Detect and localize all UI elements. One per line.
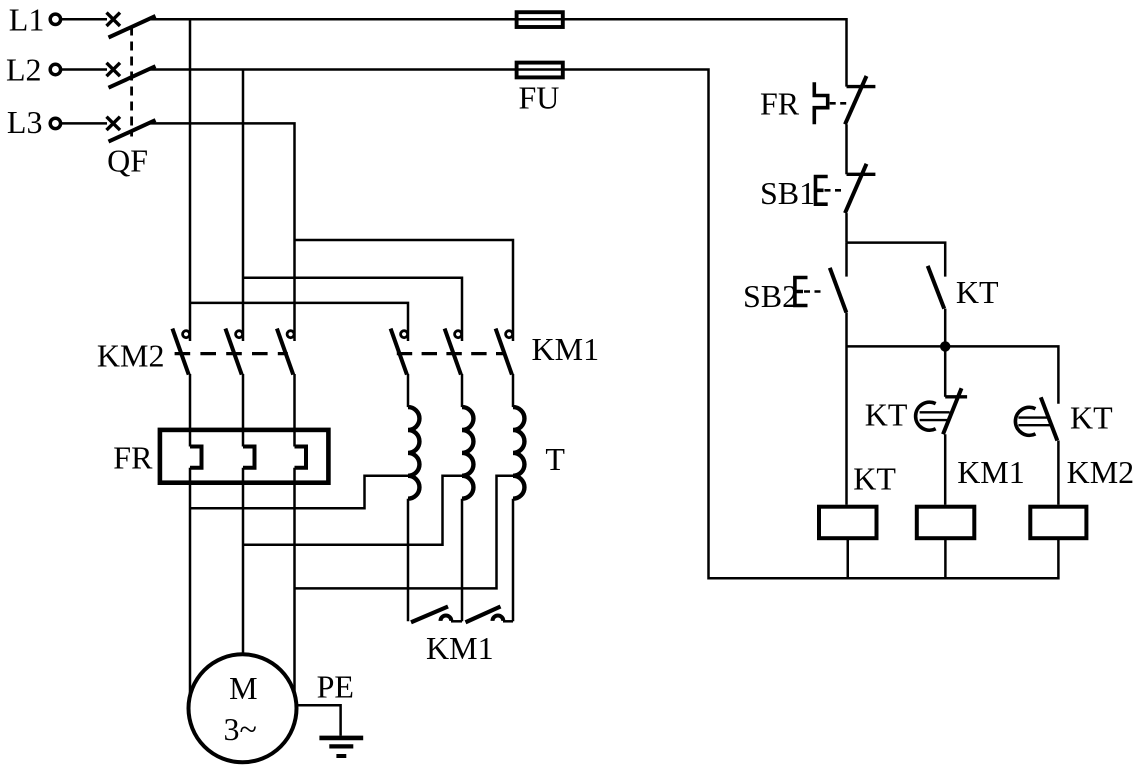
wire SB1 to junction [845,213,848,243]
node line2 tap [242,70,245,342]
transformer T coil1 [408,407,419,499]
svg-text:FR: FR [113,440,153,476]
button SB2 actuator [795,278,808,306]
svg-text:KM2: KM2 [1067,454,1134,490]
wire junction to SB2 [845,243,848,277]
wire L1 top rail to control branch [149,19,847,86]
wire KM1 pole2 to coil T2 [461,374,464,407]
svg-text:SB1: SB1 [760,175,815,211]
wire KM1 pole1 to coil T1 [407,374,410,407]
relay FR NC contact blade [845,76,867,124]
contactor KM1 pole2 blade [445,329,461,375]
svg-text:L1: L1 [9,1,45,37]
svg-text:SB2: SB2 [743,278,798,314]
svg-text:KT: KT [865,397,908,433]
terminal L3 [50,118,60,128]
svg-text:KT: KT [956,274,999,310]
button SB1 linkage dashed [825,189,846,192]
wire junction to KT branch [847,243,946,277]
svg-text:KM1: KM1 [957,454,1025,490]
button SB1 NC tick [847,173,876,176]
ground bar1 [319,736,363,741]
breaker QF pole1 blade [109,16,156,38]
transformer T coil2 [462,407,473,499]
contact KT timed NC tick [945,395,967,398]
contactor KM1 pole1 blade [391,329,407,375]
wire coil T1 to star contact [407,499,410,622]
fuse FU1 [517,12,563,27]
wire FR to SB1 [845,124,848,174]
contactor KM2 pole2 blade [225,329,241,375]
svg-text:KM1: KM1 [426,630,494,666]
junction dot [940,341,950,351]
contactor KM1 pole3 blade [496,329,512,375]
svg-text:L3: L3 [7,104,43,140]
wire star dome1 to T2 [451,620,462,623]
heater element phase3 [295,447,307,468]
wire KM1 pole3 to coil T3 [512,374,515,407]
wire phase2 FR to motor [242,468,245,655]
relay FR NC contact tick [847,85,876,88]
wire rail2 to timed NC [944,346,947,396]
wire coil T2 to star contact [461,499,464,622]
coil KM1 [917,507,975,539]
wire L3 to QF [62,122,108,125]
contactor KM2 pole1 terminal [183,331,190,338]
svg-text:M: M [229,670,257,706]
wire feed line3 to KM1 pole3 [295,240,514,341]
tap T2 to line2 [243,476,462,545]
svg-text:KM2: KM2 [97,338,165,374]
contact KT timed NO delay arc [1015,407,1035,435]
contactor KM2 pole1 blade [172,329,188,375]
svg-text:QF: QF [107,143,148,179]
svg-text:KT: KT [853,461,896,497]
wire feed line2 to KM1 pole2 [243,278,462,341]
contact KT timed NC blade [943,388,962,434]
contactor KM1 star contact dome2 [493,616,504,621]
contactor KM1 pole3 terminal [506,331,513,338]
contactor KM1 dashed linkage [397,352,506,355]
contactor KM1 pole1 terminal [401,331,408,338]
tap T3 to line3 [295,476,514,589]
wire phase1 FR to motor [189,468,192,696]
breaker QF pole3 cross [107,117,121,130]
wire KT coil to rail [847,538,850,578]
svg-text:KM1: KM1 [532,331,600,367]
wire L1 to QF [62,18,108,21]
wire KT contact to rail [944,309,947,347]
ground bar3 [336,754,346,758]
wire L2 to QF [62,68,108,71]
thermal relay FR box [160,430,329,483]
button SB2 blade [830,268,847,313]
heater element phase2 [243,447,255,468]
breaker QF pole2 blade [109,66,156,88]
contactor KM1 star contact dome1 [441,616,452,621]
button SB2 linkage dashed [804,290,824,293]
wire timed NC to KM1 coil [944,434,947,505]
breaker QF pole1 cross [107,13,121,26]
contact KT NO blade [928,266,945,309]
breaker QF pole3 blade [109,120,156,142]
contactor KM2 pole3 terminal [287,331,294,338]
transformer T coil3 [513,407,524,499]
wire star dome2 to T3 [503,620,513,623]
relay FR thermal element [814,82,827,124]
svg-text:FU: FU [519,80,560,116]
terminal L2 [50,64,60,74]
tap T1 to line1 [190,476,408,509]
contactor KM2 pole3 blade [277,329,293,375]
heater element phase1 [190,447,202,468]
svg-text:KT: KT [1070,399,1113,435]
wire SB2 to KT coil [845,312,848,504]
svg-text:FR: FR [760,85,800,121]
motor M circle [189,654,297,762]
contactor KM1 pole2 terminal [455,331,462,338]
svg-text:T: T [545,441,565,477]
button SB1 actuator [816,177,828,205]
wire rail2 [847,346,1059,403]
contactor KM2 pole2 terminal [236,331,243,338]
wire timed NO to KM2 coil [1057,441,1060,505]
wire KM2 pole2 to FR box [242,374,245,447]
button SB1 blade [845,164,867,213]
terminal L1 [50,14,60,24]
contact KT timed NC chords [920,412,950,420]
relay FR linkage dashed [830,102,850,105]
contactor KM1 star blade1 [411,607,448,623]
ground bar2 [329,744,353,748]
wire feed line1 to KM1 pole1 [190,303,408,341]
wire L3 to line3 [149,123,295,341]
contactor KM1 star blade2 [466,607,501,623]
wire KM1 coil to rail [944,538,947,578]
wire KM2 pole1 to FR box [189,374,192,447]
node line1 tap [189,19,192,341]
coil KM2 [1030,507,1086,539]
contact KT timed NC delay arc [916,402,936,430]
wire L2 rail to control circuit left rail and bottom rail [149,70,1058,579]
svg-text:L2: L2 [6,51,42,87]
breaker QF linkage dashed [130,27,133,137]
contact KT timed NO blade [1041,397,1058,440]
svg-text:PE: PE [317,669,354,705]
breaker QF pole2 cross [107,63,121,76]
contact KT timed NO chords [1018,418,1050,426]
wire phase3 FR to motor [293,468,296,694]
wire coil T3 to star contact [512,499,515,622]
svg-text:3~: 3~ [224,711,257,747]
fuse FU2 [517,63,563,78]
coil KT [819,507,877,539]
wire motor to PE [296,705,340,736]
wire KM2 pole3 to FR box [293,374,296,447]
contactor KM2 dashed linkage [175,352,288,355]
